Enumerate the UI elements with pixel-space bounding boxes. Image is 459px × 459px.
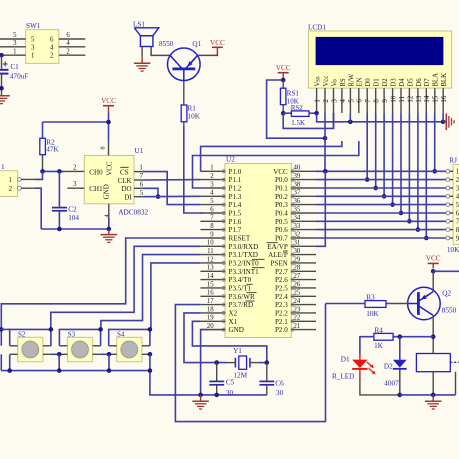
power VCC at Q1 xyxy=(210,39,225,54)
svg-text:19: 19 xyxy=(207,315,214,322)
transistor Q2 (8550 PNP) xyxy=(408,287,457,320)
junction GND column xyxy=(198,393,203,398)
svg-text:Y1: Y1 xyxy=(233,347,242,355)
resistor R4 1K xyxy=(374,326,393,350)
svg-text:EN: EN xyxy=(357,77,364,86)
junction D5 xyxy=(407,219,412,224)
svg-text:26: 26 xyxy=(294,281,301,288)
connector J1 pin 2 xyxy=(17,186,34,190)
svg-text:X2: X2 xyxy=(229,310,238,318)
svg-text:3: 3 xyxy=(31,44,35,51)
svg-text:4: 4 xyxy=(210,190,214,197)
svg-text:VCC: VCC xyxy=(276,64,291,72)
svg-text:X1: X1 xyxy=(229,318,238,326)
svg-text:RJ: RJ xyxy=(449,157,457,165)
svg-text:Q1: Q1 xyxy=(192,40,201,48)
wire VCC node right (cropped) xyxy=(433,270,459,272)
junction bus S2-S3 xyxy=(57,368,62,373)
wire lower S3-S4 link xyxy=(101,353,109,355)
U1 pin 2 CH0 xyxy=(65,164,84,171)
junction C6 node xyxy=(265,360,270,365)
junction bus S2 xyxy=(7,368,12,373)
svg-text:VCC: VCC xyxy=(426,254,441,262)
junction RS1/RS2 xyxy=(281,111,286,116)
svg-text:P0.2: P0.2 xyxy=(275,193,288,201)
svg-text:C2: C2 xyxy=(68,206,77,214)
svg-text:3: 3 xyxy=(331,99,338,103)
wire Q1 emitter to VCC xyxy=(198,54,217,55)
svg-text:P3.1/TXD: P3.1/TXD xyxy=(229,251,258,259)
wire RS1 tap to LCD Vo xyxy=(283,113,333,128)
svg-text:35: 35 xyxy=(294,206,301,213)
svg-text:4: 4 xyxy=(104,214,111,217)
junction DO/DI xyxy=(156,194,161,199)
svg-text:P2.0: P2.0 xyxy=(275,326,288,334)
junction button top x=129.3 xyxy=(148,327,153,332)
svg-text:16: 16 xyxy=(441,95,448,102)
svg-text:5: 5 xyxy=(210,198,214,205)
LCD1 body xyxy=(308,24,452,89)
wire P0.0 row to RJ pin2 xyxy=(316,179,448,181)
U1 pin 1 CS xyxy=(134,165,143,172)
svg-text:1: 1 xyxy=(1,163,5,171)
svg-text:BLK: BLK xyxy=(441,73,448,87)
SW1 pin 4 (right) xyxy=(50,40,85,51)
svg-text:25: 25 xyxy=(294,290,301,297)
svg-text:3: 3 xyxy=(73,181,77,188)
capacitor C2 104 xyxy=(52,171,79,229)
transistor Q1 (8550 PNP) xyxy=(159,40,202,81)
svg-text:P1.3: P1.3 xyxy=(229,193,242,201)
junction VCC/U1 node xyxy=(106,120,111,125)
LCD pins and labels xyxy=(315,73,449,113)
svg-text:Vss: Vss xyxy=(315,76,322,87)
wire CLK to U2 P1.1 xyxy=(142,179,200,181)
wire U2 GND down xyxy=(201,330,225,395)
wire LCD R/W down xyxy=(349,113,351,122)
wire VCC node to R2 and U1 pin8 xyxy=(43,113,109,142)
svg-text:1: 1 xyxy=(9,177,12,184)
svg-text:EA/VP: EA/VP xyxy=(267,243,288,251)
svg-text:4: 4 xyxy=(50,44,54,51)
svg-text:1.5K: 1.5K xyxy=(291,119,305,127)
svg-text:D1: D1 xyxy=(374,78,381,86)
crystal Y1 12M xyxy=(227,347,258,379)
U1 pin 3 CH1 xyxy=(67,181,84,188)
junction BLK ground xyxy=(441,120,446,125)
svg-text:D5: D5 xyxy=(407,78,414,87)
svg-text:18: 18 xyxy=(207,306,214,313)
wire relay left pin to ground rail xyxy=(432,372,434,395)
svg-text:P1.5: P1.5 xyxy=(229,210,242,218)
SW1 pin 2 (right) xyxy=(50,48,85,59)
resistor R1 10K xyxy=(181,104,200,121)
wire bottom right rail xyxy=(400,394,456,396)
wire U2 X2 to crystal left xyxy=(184,313,227,363)
junction D7 xyxy=(424,236,429,241)
wire header pin1 to CH0 node xyxy=(35,171,43,179)
svg-text:D0: D0 xyxy=(365,78,372,87)
wire P0.2 row to RJ pin4 xyxy=(316,195,448,197)
U1 pin 7 CLK xyxy=(134,173,144,180)
svg-text:GND: GND xyxy=(103,184,111,199)
svg-text:2: 2 xyxy=(323,99,330,103)
svg-text:VCC: VCC xyxy=(210,39,225,47)
svg-text:13: 13 xyxy=(416,95,423,102)
svg-text:8: 8 xyxy=(100,146,107,149)
junction D2 xyxy=(382,194,387,199)
button pins at x=30.3 xyxy=(10,346,51,355)
svg-text:RS1: RS1 xyxy=(287,89,300,97)
wire U2 P3.2 to S4 xyxy=(151,263,201,330)
svg-text:8: 8 xyxy=(374,99,381,103)
svg-text:33: 33 xyxy=(294,223,301,230)
U1 pin 6 DO xyxy=(134,182,144,189)
wire EA/VP tie to VCC xyxy=(316,171,325,246)
svg-text:P0.3: P0.3 xyxy=(275,201,288,209)
wire U2 P3.1 to S3 xyxy=(101,255,200,330)
svg-text:RESET: RESET xyxy=(229,235,251,243)
svg-text:28: 28 xyxy=(294,265,301,272)
junction button top x=30.3 xyxy=(49,327,54,332)
switch SW1 body xyxy=(26,22,59,63)
svg-text:U2: U2 xyxy=(226,156,235,164)
junction BLA/VCC row xyxy=(432,169,437,174)
resistor network RJ 10K xyxy=(446,157,459,254)
svg-text:7: 7 xyxy=(140,173,144,180)
svg-text:29: 29 xyxy=(294,256,301,263)
svg-text:24: 24 xyxy=(294,298,301,305)
wire relay right pin down xyxy=(455,372,457,395)
button pins at x=129.3 xyxy=(109,346,150,355)
wire VCC to Q2 emitter xyxy=(432,271,434,291)
svg-text:P0.1: P0.1 xyxy=(275,185,288,193)
wire U2 VCC row to RJ pin1 xyxy=(316,170,448,172)
svg-text:14: 14 xyxy=(207,273,214,280)
wire LCD D7 to U2 P0.7 xyxy=(425,113,427,238)
svg-text:8550: 8550 xyxy=(159,40,174,48)
svg-text:5: 5 xyxy=(13,32,17,39)
svg-text:1K: 1K xyxy=(374,342,384,350)
wire analog ground rail xyxy=(41,228,109,230)
wire LCD D3 to U2 P0.3 xyxy=(392,113,394,205)
svg-text:DI: DI xyxy=(124,194,132,202)
wire LCD EN to U2 P1.2 xyxy=(193,141,359,188)
svg-text:Vcc: Vcc xyxy=(323,76,330,87)
svg-text:P2.6: P2.6 xyxy=(275,276,288,284)
junction D4 xyxy=(399,211,404,216)
svg-text:R4: R4 xyxy=(375,326,384,334)
svg-text:8550: 8550 xyxy=(442,306,457,314)
svg-text:D2: D2 xyxy=(384,362,393,370)
wire LCD BLA down to VCC row xyxy=(434,113,436,171)
wire R1 to U2 P1.5 xyxy=(184,122,203,213)
svg-text:LCD1: LCD1 xyxy=(308,24,326,32)
svg-text:P1.2: P1.2 xyxy=(229,185,242,193)
svg-text:2: 2 xyxy=(50,53,54,60)
svg-text:47K: 47K xyxy=(46,145,59,153)
svg-text:P1.4: P1.4 xyxy=(229,201,242,209)
svg-text:R_LED: R_LED xyxy=(332,372,354,380)
svg-text:6: 6 xyxy=(357,99,364,103)
svg-text:30: 30 xyxy=(276,389,284,397)
wire P0.4 row to RJ pin6 xyxy=(316,212,448,214)
push-button S3 xyxy=(67,330,92,361)
svg-text:6: 6 xyxy=(50,37,54,44)
capacitor C5 30 xyxy=(209,363,234,397)
svg-text:R3: R3 xyxy=(366,293,375,301)
svg-text:VCC: VCC xyxy=(273,168,288,176)
wire CH0 net xyxy=(43,170,65,172)
svg-text:VCC: VCC xyxy=(101,97,116,105)
svg-text:10K: 10K xyxy=(447,246,459,254)
power VCC above RS1 xyxy=(276,64,291,79)
junction D2 top xyxy=(398,334,403,339)
svg-text:P0.0: P0.0 xyxy=(275,176,288,184)
wire R3 to Q2 base xyxy=(386,303,408,305)
svg-text:21: 21 xyxy=(294,323,301,330)
svg-text:P2.7: P2.7 xyxy=(275,268,288,276)
wire P0.6 row to RJ pin8 xyxy=(316,229,448,231)
svg-text:D1: D1 xyxy=(341,355,350,363)
wire LCD Vo down xyxy=(333,113,335,128)
svg-text:VCC: VCC xyxy=(106,161,114,176)
svg-text:15: 15 xyxy=(207,281,214,288)
wire LCD Vcc column down to U2 VCC row xyxy=(324,113,326,171)
svg-text:D6: D6 xyxy=(416,78,423,87)
svg-text:R/W: R/W xyxy=(348,73,355,86)
svg-text:12M: 12M xyxy=(234,371,248,379)
svg-text:1: 1 xyxy=(139,165,142,172)
wire CS to U2 P1.4 xyxy=(142,172,200,205)
svg-text:1: 1 xyxy=(13,48,16,55)
svg-text:16: 16 xyxy=(207,290,214,297)
SW1 pin 6 (right) xyxy=(50,32,85,43)
SW1 pin 1 (left) xyxy=(0,48,34,59)
svg-text:2: 2 xyxy=(210,173,214,180)
svg-text:22: 22 xyxy=(294,315,301,322)
ground below C1 xyxy=(0,96,10,104)
relay K1 xyxy=(416,354,459,372)
wire LCD D4 to U2 P0.4 xyxy=(400,113,402,213)
junction C2 top xyxy=(57,169,62,174)
svg-text:104: 104 xyxy=(68,214,79,222)
button top loop at x=129.3 xyxy=(109,329,150,345)
svg-text:30: 30 xyxy=(294,248,301,255)
wire R2 bottom to CH0 node xyxy=(42,155,44,172)
junction lower S3-S4 xyxy=(107,352,112,357)
wire P0.3 row to RJ pin5 xyxy=(316,204,448,206)
U1 pin 5 DI xyxy=(134,190,144,197)
wire U1 GND to ground rail xyxy=(108,218,110,229)
svg-text:40: 40 xyxy=(294,165,301,172)
junction D3 xyxy=(390,202,395,207)
svg-text:P2.1: P2.1 xyxy=(275,318,288,326)
capacitor C1 (polarized 470uF) xyxy=(0,55,28,95)
junction C5 bottom xyxy=(214,393,219,398)
svg-text:P3.0/RXD: P3.0/RXD xyxy=(229,243,259,251)
junction D6 xyxy=(416,227,421,232)
wire DO to DI tie xyxy=(142,188,158,196)
svg-text:37: 37 xyxy=(294,190,301,197)
svg-text:D2: D2 xyxy=(382,78,389,87)
SW1 pin 3 (left) xyxy=(0,40,35,51)
wire ground rail bottom xyxy=(201,394,267,396)
svg-text:P2.4: P2.4 xyxy=(275,293,288,301)
svg-text:38: 38 xyxy=(294,181,301,188)
junction C2 bottom xyxy=(57,227,62,232)
button pins at x=80.0 xyxy=(59,346,100,355)
wire VCC to LCD Vcc column xyxy=(267,80,325,138)
svg-text:3: 3 xyxy=(210,181,214,188)
svg-text:3: 3 xyxy=(13,40,17,47)
button top loop at x=80.0 xyxy=(59,329,100,345)
wire LCD D2 to U2 P0.2 xyxy=(383,113,385,196)
wire lower S2-S3 link xyxy=(51,353,59,355)
resistor RS2 1.5K xyxy=(283,104,316,127)
svg-text:P2.5: P2.5 xyxy=(275,285,288,293)
svg-text:D7: D7 xyxy=(424,78,431,87)
push-button S4 xyxy=(117,330,142,361)
svg-text:4: 4 xyxy=(340,99,347,103)
svg-text:P3.5/T1: P3.5/T1 xyxy=(229,285,252,293)
power VCC at Q2 xyxy=(426,254,441,268)
wire R3 left to P3.7 loop xyxy=(326,303,366,305)
svg-text:15: 15 xyxy=(433,95,440,102)
svg-text:Q2: Q2 xyxy=(442,289,451,297)
svg-text:31: 31 xyxy=(294,240,301,247)
svg-text:D3: D3 xyxy=(391,78,398,87)
svg-text:7: 7 xyxy=(210,215,214,222)
LED D1 R_LED xyxy=(332,354,376,380)
junction Vcc column xyxy=(323,136,328,141)
U1 pin 8 VCC (top) xyxy=(100,141,109,156)
junction S1 top xyxy=(0,327,4,332)
junction lower S2-S3 xyxy=(57,352,62,357)
wire U2 RESET to S1 column xyxy=(1,238,200,346)
diode D2 4007 xyxy=(384,337,407,395)
junction on SW1 pin1 wire xyxy=(0,53,4,58)
svg-text:GND: GND xyxy=(229,326,244,334)
wire R4 left to D1 xyxy=(360,337,374,354)
svg-text:7: 7 xyxy=(365,99,372,103)
svg-text:6: 6 xyxy=(140,182,144,189)
wire LCD D1 to U2 P0.1 xyxy=(375,113,377,188)
wire DI to U2 P1.3 xyxy=(142,195,200,197)
junction LCD Vss xyxy=(314,111,319,116)
svg-text:P1.7: P1.7 xyxy=(229,226,242,234)
svg-text:10: 10 xyxy=(391,95,398,102)
svg-text:SW1: SW1 xyxy=(26,22,41,30)
resistor R2 47K xyxy=(40,138,60,154)
svg-text:P1.6: P1.6 xyxy=(229,218,242,226)
svg-text:10K: 10K xyxy=(366,310,379,318)
svg-text:P1.1: P1.1 xyxy=(229,176,242,184)
wire button ground bus xyxy=(1,354,200,395)
wire P0.1 row to RJ pin3 xyxy=(316,187,448,189)
svg-text:C1: C1 xyxy=(10,63,19,71)
junction VCC row / EA column xyxy=(323,169,328,174)
connector J1 body xyxy=(0,163,18,197)
svg-text:5: 5 xyxy=(140,190,144,197)
svg-text:8: 8 xyxy=(210,223,214,230)
ground below LS1 xyxy=(134,63,151,71)
junction relay ground xyxy=(431,393,436,398)
ground right of LCD xyxy=(443,114,454,131)
junction lower S4 right xyxy=(148,352,153,357)
svg-text:13: 13 xyxy=(207,265,214,272)
svg-text:CLK: CLK xyxy=(118,177,132,185)
svg-text:5: 5 xyxy=(31,37,35,44)
svg-text:9: 9 xyxy=(210,231,214,238)
button top loop at x=30.3 xyxy=(10,329,51,345)
svg-text:10: 10 xyxy=(207,240,214,247)
wire S2 upper-left to S1 node xyxy=(1,328,9,330)
junction VCC/RS1 xyxy=(281,78,286,83)
wire LCD Vss to ground bus xyxy=(317,113,444,122)
svg-text:P3.4/T0: P3.4/T0 xyxy=(229,276,252,284)
svg-text:P0.4: P0.4 xyxy=(275,210,288,218)
svg-text:4007: 4007 xyxy=(384,379,399,387)
SW1 pin 5 (left) xyxy=(0,32,35,43)
svg-text:27: 27 xyxy=(294,273,301,280)
svg-text:32: 32 xyxy=(294,231,301,238)
junction bus S3-S4 xyxy=(107,368,112,373)
wire crystal right to C6 xyxy=(258,362,267,364)
svg-text:2: 2 xyxy=(9,186,13,193)
capacitor C6 30 xyxy=(259,363,284,397)
svg-text:36: 36 xyxy=(294,198,301,205)
svg-text:11: 11 xyxy=(207,248,214,255)
push-button S2 xyxy=(18,330,43,361)
resistor RS1 10K xyxy=(280,80,299,113)
resistor R3 10K xyxy=(365,293,386,317)
svg-text:CH1: CH1 xyxy=(89,185,103,193)
wire LCD D6 to U2 P0.6 xyxy=(417,113,419,230)
svg-text:ALE/P: ALE/P xyxy=(268,251,288,259)
wire LCD D5 to U2 P0.5 xyxy=(408,113,410,221)
svg-text:P3.3/INT1: P3.3/INT1 xyxy=(229,268,260,276)
junction R/W ground xyxy=(348,120,353,125)
wire P0.7 row to RJ pin9 xyxy=(316,237,448,239)
svg-text:Vo: Vo xyxy=(331,79,338,87)
svg-text:39: 39 xyxy=(294,173,301,180)
svg-text:34: 34 xyxy=(294,215,301,222)
svg-text:P3.2/INT0: P3.2/INT0 xyxy=(229,260,260,268)
junction D1 xyxy=(373,186,378,191)
junction D0 xyxy=(365,177,370,182)
wire LS1 right lead to Q1 base xyxy=(151,47,170,56)
svg-text:R1: R1 xyxy=(188,104,197,112)
junction below C1 xyxy=(0,86,4,91)
wire U2 X1 to crystal right xyxy=(192,321,266,362)
svg-text:5: 5 xyxy=(348,99,355,103)
wire LCD BLK down xyxy=(442,113,444,122)
svg-text:P2.3: P2.3 xyxy=(275,301,288,309)
U1 pin 4 GND (bottom) xyxy=(104,204,111,218)
svg-text:1: 1 xyxy=(31,53,34,60)
power VCC above U1 xyxy=(101,97,116,113)
svg-text:6: 6 xyxy=(210,206,214,213)
svg-text:RS: RS xyxy=(340,78,347,87)
junction U1 GND rail xyxy=(107,227,112,232)
svg-text:BLA: BLA xyxy=(433,73,440,87)
wire LCD RS to U2 P1.0 xyxy=(200,141,342,171)
svg-text:11: 11 xyxy=(399,95,406,102)
ground below U1 xyxy=(101,229,118,242)
svg-text:P3.6/WR: P3.6/WR xyxy=(229,293,255,301)
speaker LS1 xyxy=(133,20,159,46)
